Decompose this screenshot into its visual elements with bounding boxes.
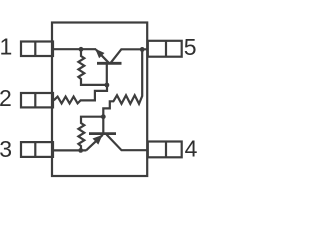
svg-text:2: 2 (0, 85, 12, 111)
wire pin3 to Q2 emitter (53, 149, 86, 151)
pin 1 lead (21, 42, 53, 57)
transistor Q1 base bar (97, 62, 122, 65)
transistor Q2 emitter (86, 135, 103, 151)
transistor Q1 emitter (96, 50, 109, 64)
transistor Q2 emitter arrow (93, 135, 103, 145)
resistor R2 (pin2 series) with step wire to node B (54, 85, 107, 103)
svg-text:3: 3 (0, 136, 12, 162)
svg-text:4: 4 (185, 136, 198, 162)
resistor R1 (vertical, node A to node B) (78, 49, 106, 85)
wire node D to resistor R4 / resistor R4 (vertical) (78, 117, 103, 151)
transistor Q1 collector and wire to pin 5 (110, 49, 147, 63)
node B junction dot (105, 83, 110, 88)
transistor Q2 base bar (89, 132, 116, 135)
transistor Q1 emitter arrow (95, 49, 104, 58)
transistor Q1 base lead (106, 63, 108, 85)
node E junction dot (78, 148, 83, 153)
package outline (52, 23, 147, 177)
wire pin1 to Q1 emitter (53, 48, 96, 50)
pin 4 lead (148, 142, 182, 158)
svg-text:5: 5 (184, 34, 197, 60)
node D junction dot (101, 114, 106, 119)
node C junction dot (140, 47, 145, 52)
transistor Q2 base lead (102, 117, 104, 134)
wire node C down / resistor R3 / step wire to node D (103, 49, 142, 116)
svg-text:1: 1 (0, 34, 12, 60)
node A junction dot (79, 47, 84, 52)
pin 3 lead (21, 142, 53, 157)
pin 5 lead (148, 41, 182, 57)
transistor Q2 collector and wire to pin 4 (107, 135, 148, 151)
pin 2 lead (21, 93, 53, 107)
